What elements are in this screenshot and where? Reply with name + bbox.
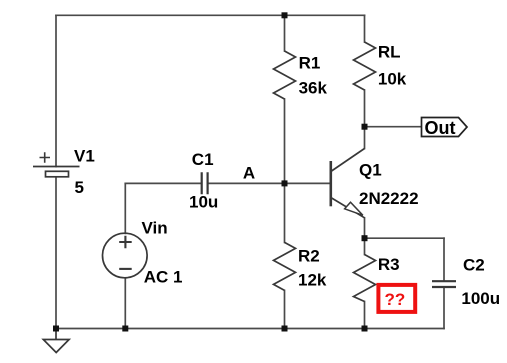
wire Vin bottom lead [124,278,126,329]
junction dot top rail R1 [282,12,288,18]
junction dot collector/Out [362,124,368,130]
wire left vertical lower (V1 minus lead) [55,177,57,329]
svg-text:AC 1: AC 1 [144,268,183,287]
ground triangle [43,340,69,353]
wire top rail [56,14,365,16]
wire R1 top lead [284,15,286,51]
resistor R1 [274,51,296,99]
svg-text:R2: R2 [298,246,320,265]
junction dot ground [53,326,59,332]
wire C1 left [125,182,200,184]
junction dot R2 bottom [282,326,288,332]
wire R2 top lead [284,183,286,242]
svg-text:??: ?? [385,290,406,309]
Out port flag [422,118,468,137]
ground stem [55,329,57,340]
wire R3 top lead [364,238,366,254]
svg-text:Out: Out [425,118,456,138]
junction dot emitter node [362,235,368,241]
wire C2 top lead [443,238,445,280]
wire R2 bottom lead [284,290,286,328]
junction dot Vin bottom [122,326,128,332]
transistor Q1 emitter diagonal [331,198,365,218]
wire C2 bottom lead [443,288,445,329]
svg-text:10k: 10k [378,70,407,89]
svg-text:2N2222: 2N2222 [359,189,419,208]
svg-text:V1: V1 [74,147,95,166]
svg-text:12k: 12k [298,271,327,290]
svg-text:Vin: Vin [142,219,168,238]
svg-text:A: A [243,164,255,183]
wire Vin top lead [124,183,126,233]
battery V1 plus sign [40,152,51,162]
capacitor C2 plates [432,281,456,287]
transistor Q1 base bar [329,161,332,206]
battery V1 bottom plate [46,171,69,177]
junction dot R3 bottom [362,326,368,332]
battery V1 top plate [33,166,80,168]
wire C1 right to node A [209,182,285,184]
wire collector lead [364,127,366,149]
svg-text:R1: R1 [299,54,321,73]
resistor RL [354,42,376,90]
svg-text:C1: C1 [192,150,214,169]
voltage source Vin circle [103,233,148,278]
svg-text:RL: RL [378,42,401,61]
svg-text:10u: 10u [189,193,218,212]
svg-text:36k: 36k [299,78,328,97]
junction node A [282,180,288,186]
wire bottom rail [56,328,444,330]
capacitor C1 plates [202,172,208,194]
svg-text:5: 5 [75,178,84,197]
svg-text:C2: C2 [463,256,485,275]
wire R1 bottom lead [284,99,286,183]
svg-text:100u: 100u [461,289,500,308]
wire base (node A to Q1) [285,182,330,184]
Vin plus sign [119,236,132,248]
wire RL bottom lead [364,90,366,127]
transistor Q1 collector diagonal [331,149,365,172]
wire RL top lead [364,15,366,42]
svg-text:R3: R3 [378,255,400,274]
hidden value red box [378,285,415,312]
resistor R3 [354,255,376,302]
wire emitter node to C2 [365,237,445,239]
resistor R2 [274,242,296,290]
wire Out [365,126,422,128]
transistor Q1 emitter arrow [345,202,363,215]
Vin minus sign [119,268,132,270]
wire emitter lead [364,218,366,238]
wire R3 bottom lead [364,302,366,329]
wire left vertical upper (V1 plus lead) [55,15,57,166]
svg-text:Q1: Q1 [359,161,382,180]
